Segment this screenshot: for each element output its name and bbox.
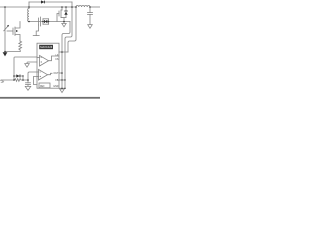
svg-text:FB: FB: [55, 80, 58, 82]
svg-text:OUT: OUT: [54, 73, 59, 75]
svg-text:LX: LX: [56, 55, 59, 57]
svg-text:GND: GND: [53, 86, 58, 88]
svg-text:MAX1626: MAX1626: [40, 45, 53, 49]
svg-text:REF: REF: [40, 86, 45, 88]
svg-text:CS: CS: [55, 59, 59, 61]
